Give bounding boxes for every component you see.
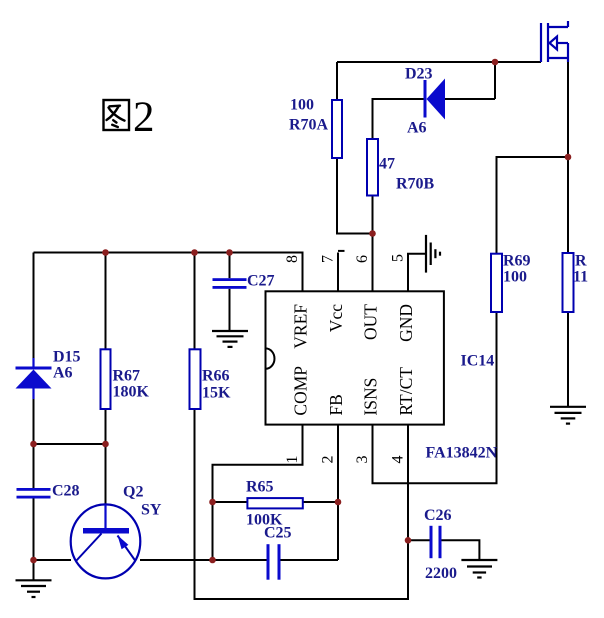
svg-text:IC14: IC14 [461,353,495,370]
svg-text:1: 1 [284,456,301,464]
svg-text:100: 100 [503,269,527,286]
svg-text:6: 6 [354,255,371,263]
svg-text:SY: SY [141,502,162,519]
svg-text:A6: A6 [407,120,427,137]
svg-text:11: 11 [573,269,588,286]
svg-text:2: 2 [133,94,155,141]
svg-text:R66: R66 [202,368,230,385]
svg-text:8: 8 [284,255,301,263]
svg-text:47: 47 [379,156,395,173]
svg-text:RT/CT: RT/CT [396,367,416,416]
svg-text:VREF: VREF [291,304,311,349]
svg-text:GND: GND [396,304,416,342]
svg-text:C26: C26 [424,507,452,524]
svg-text:3: 3 [354,456,371,464]
svg-text:180K: 180K [113,384,150,401]
svg-text:A6: A6 [53,365,73,382]
svg-text:R: R [575,253,587,270]
svg-text:FA13842N: FA13842N [426,445,498,462]
svg-text:100: 100 [290,97,314,114]
svg-text:D15: D15 [53,349,81,366]
svg-text:2: 2 [320,456,337,464]
svg-text:R67: R67 [113,368,141,385]
svg-text:15K: 15K [202,385,231,402]
svg-text:ISNS: ISNS [361,378,381,416]
svg-text:C25: C25 [264,525,292,542]
svg-text:Vcc: Vcc [326,304,346,332]
svg-text:Q2: Q2 [123,484,143,501]
svg-text:4: 4 [390,456,407,464]
svg-text:5: 5 [390,254,407,262]
svg-text:7: 7 [320,255,337,263]
svg-text:R70B: R70B [396,176,435,193]
svg-text:D23: D23 [405,66,433,83]
svg-text:COMP: COMP [291,366,311,416]
svg-text:R69: R69 [503,253,531,270]
svg-text:FB: FB [326,394,346,415]
svg-text:C27: C27 [247,273,275,290]
svg-text:OUT: OUT [361,304,381,340]
svg-text:C28: C28 [52,483,80,500]
svg-text:2200: 2200 [425,565,457,582]
svg-text:R65: R65 [246,479,274,496]
svg-text:R70A: R70A [289,117,329,134]
